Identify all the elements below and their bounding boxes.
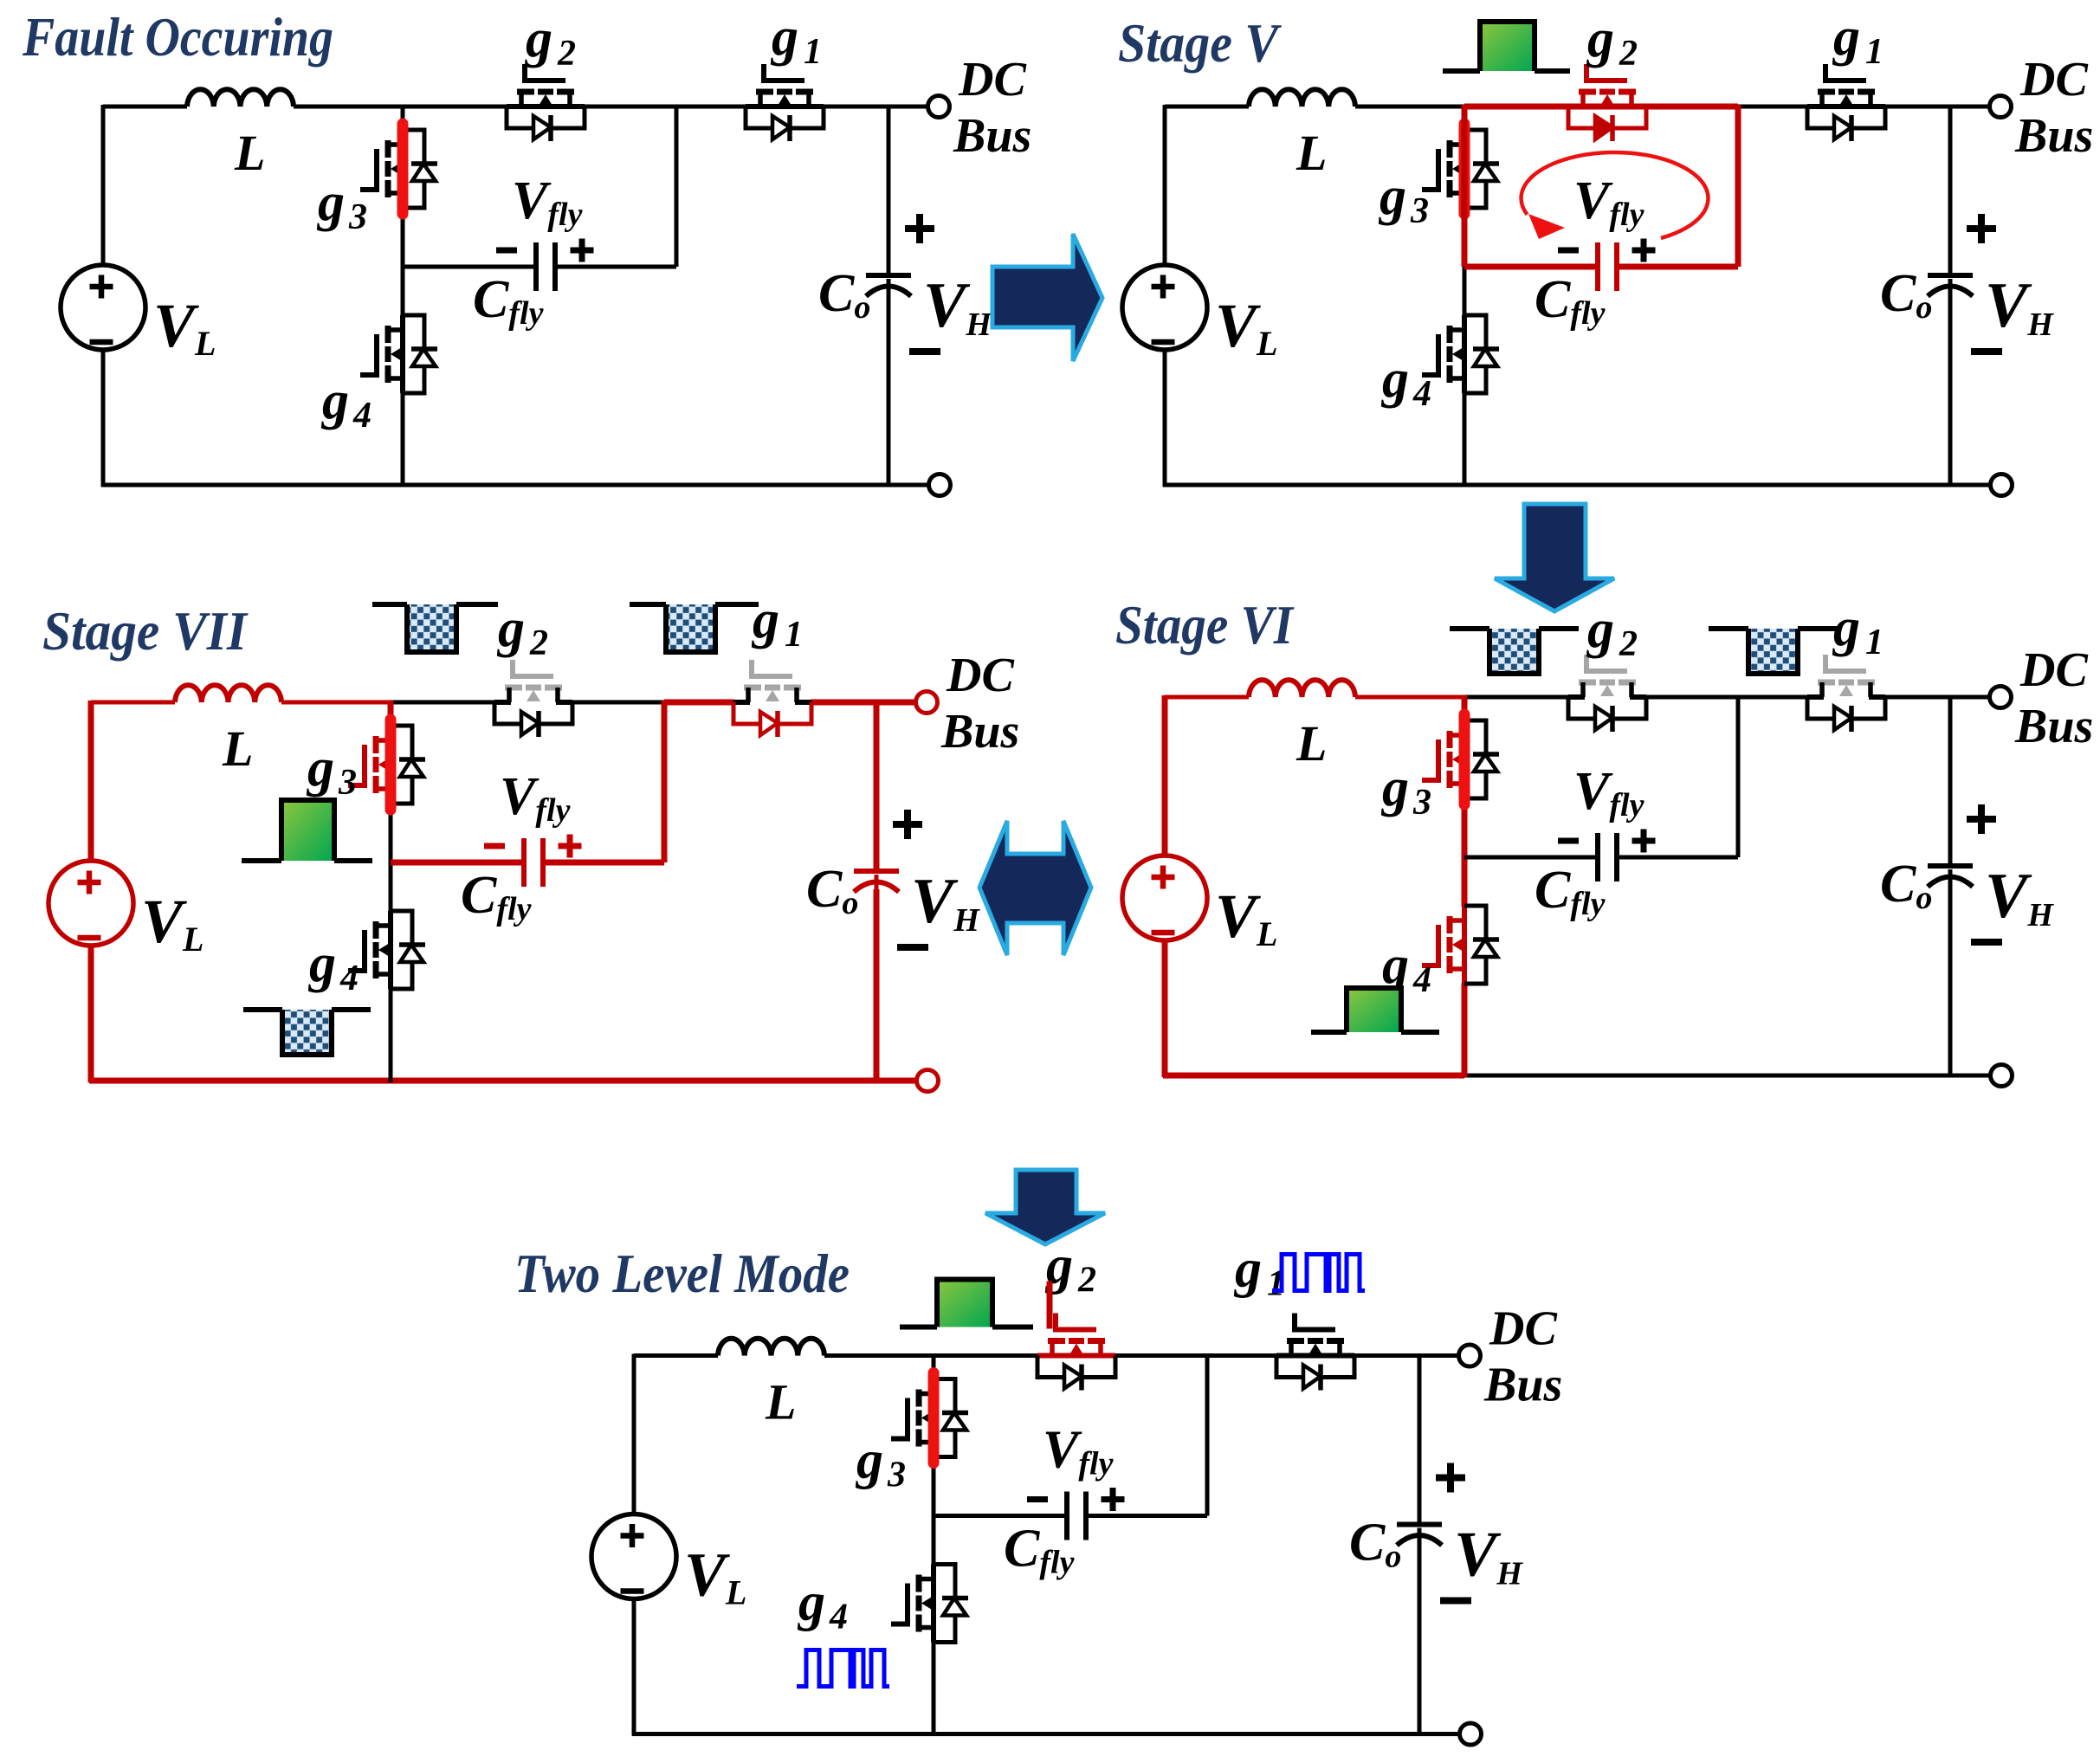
wire Cfly riser (Stage VII)	[662, 701, 668, 862]
wire branch upper (Stage VII)	[388, 701, 394, 727]
gate OFF pulse (hatched notch) g1 Stage VI	[1748, 629, 1798, 674]
label Cfly minus (Two Level Mode)	[1027, 1496, 1048, 1502]
fault short bar on g3 (Stage VII)	[385, 720, 397, 810]
terminal node DC bus + (Stage V)	[1990, 96, 2012, 118]
svg-text:DC: DC	[946, 649, 1014, 702]
label Cfly minus (Stage VI)	[1558, 838, 1579, 844]
transistor Q g1 (Fault Occuring)	[746, 64, 824, 141]
circulating current arrowhead (Stage V)	[1528, 214, 1565, 239]
wire left vertical (Fault Occuring)	[101, 105, 106, 265]
transistor Q g3 (Fault Occuring)	[360, 130, 437, 208]
flow arrow down (to Two Level Mode)	[985, 1170, 1105, 1244]
gate OFF pulse (hatched notch) g2 Stage VI	[1489, 629, 1539, 674]
svg-text:DC: DC	[2019, 53, 2088, 107]
fault short bar on g3 (Two Level Mode)	[928, 1373, 940, 1463]
wire top rail g1-to-terminal (Two Level Mode)	[1354, 1353, 1459, 1358]
transistor Q g4 (Fault Occuring)	[360, 315, 437, 393]
inductor L (Fault Occuring)	[187, 89, 294, 107]
fault short bar on g3 (Stage V)	[1459, 124, 1470, 214]
wire top rail left segment (Two Level Mode)	[634, 1353, 718, 1358]
wire top rail g2-to-node (Two Level Mode)	[1115, 1353, 1207, 1358]
wire left vertical (Stage VII)	[88, 701, 94, 861]
svg-text:Stage VI: Stage VI	[1115, 595, 1295, 655]
gate ON pulse (green) g2 Two Level Mode	[937, 1280, 992, 1327]
wire Co riser (Fault Occuring)	[887, 107, 891, 274]
svg-text:DC: DC	[1489, 1302, 1557, 1356]
label Cfly plus (Stage V)	[1632, 248, 1656, 254]
label Cfly plus (Stage VI)	[1632, 838, 1656, 844]
label VH plus (Stage VII)	[893, 821, 922, 828]
label Cfly plus (Two Level Mode)	[1102, 1496, 1125, 1502]
capacitor Co (Stage V)	[1928, 273, 1973, 278]
transistor Q g3 (Two Level Mode)	[891, 1379, 968, 1457]
transistor Q g4 (Stage VII)	[348, 911, 425, 989]
wire top rail inductor-to-branch (Fault Occuring)	[294, 105, 403, 109]
flow arrow double (Stage VII and Stage VI)	[979, 821, 1091, 955]
capacitor Cfly (Two Level Mode)	[1064, 1492, 1069, 1540]
wire Co riser (Stage VI)	[1948, 697, 1953, 865]
gate ON pulse (green) g4 Stage VI	[1347, 988, 1401, 1032]
wire Cfly riser (Fault Occuring)	[675, 105, 679, 267]
capacitor Co (Stage VI)	[1928, 863, 1973, 869]
wire Cfly riser (Stage VI)	[1736, 695, 1741, 857]
wire Cfly right (Stage VI)	[1617, 856, 1738, 860]
gate ON pulse (green) g2 Stage V	[1480, 22, 1535, 71]
capacitor Cfly (Stage V)	[1595, 242, 1600, 291]
svg-text:Bus: Bus	[2014, 700, 2093, 753]
capacitor Co (Fault Occuring)	[866, 273, 911, 278]
transistor Q g3 (Stage V)	[1422, 130, 1499, 208]
gate OFF pulse (hatched notch) g1 Stage VII	[666, 604, 715, 652]
PWM gate waveform (blue) g4 (Two Level Mode)	[797, 1650, 889, 1687]
transistor Q g3 (Stage VI)	[1422, 720, 1499, 798]
wire top rail node-to-g1 (Stage VII)	[664, 700, 734, 706]
wire branch lower (Fault Occuring)	[401, 392, 405, 487]
wire bottom rail left (Stage VI)	[1163, 1073, 1464, 1079]
wire top rail g2-to-node (Fault Occuring)	[584, 105, 676, 109]
wire top rail g2-to-node (Stage V)	[1645, 104, 1738, 110]
label VH plus (Fault Occuring)	[905, 225, 934, 232]
transistor Q g1 (Stage VII)	[733, 660, 811, 737]
wire Cfly left (Stage VI)	[1464, 856, 1598, 860]
transistor Q g2 (Two Level Mode)	[1037, 1314, 1115, 1391]
svg-text:L: L	[1296, 125, 1327, 181]
inductor L (Stage V)	[1249, 89, 1355, 107]
transistor Q g3 (Stage VII)	[348, 726, 425, 804]
wire branch lower (Stage VI)	[1462, 983, 1468, 1077]
inductor L (Stage VI)	[1249, 680, 1355, 697]
wire left vertical (Stage VI)	[1162, 695, 1168, 856]
wire top rail left segment (Stage VI)	[1165, 695, 1249, 700]
inductor L (Stage VII)	[175, 685, 281, 702]
wire Cfly left (Stage VII)	[391, 860, 524, 866]
terminal node DC bus - (Stage VI)	[1991, 1065, 2013, 1087]
wire Co riser (Stage V)	[1948, 107, 1953, 274]
svg-text:DC: DC	[2019, 643, 2088, 697]
wire bottom rail left (Two Level Mode)	[632, 1732, 934, 1736]
wire Cfly riser (Stage V)	[1735, 105, 1741, 267]
wire top rail branch-to-g2 (Two Level Mode)	[934, 1353, 1038, 1358]
label VH minus (Stage VII)	[897, 944, 928, 951]
svg-text:Two Level Mode: Two Level Mode	[514, 1243, 850, 1304]
capacitor Co (Stage VII)	[854, 869, 899, 874]
svg-text:L: L	[765, 1374, 796, 1430]
transistor Q g1 (Stage V)	[1807, 64, 1885, 141]
wire top rail branch-to-g2 (Fault Occuring)	[403, 105, 507, 109]
voltage source VL (Fault Occuring)	[61, 265, 145, 350]
wire branch upper (Two Level Mode)	[932, 1354, 936, 1380]
wire top rail node-to-g1 (Fault Occuring)	[676, 105, 746, 109]
flow arrow down (Stage V to Stage VI)	[1495, 504, 1614, 611]
wire Cfly right (Stage VII)	[543, 860, 664, 866]
wire top rail node-to-g1 (Stage VI)	[1738, 695, 1808, 700]
wire bottom rail right (Stage VII)	[391, 1078, 916, 1084]
transistor Q g2 (Fault Occuring)	[507, 64, 585, 141]
gate OFF pulse (hatched notch) g2 Stage VII	[407, 604, 456, 652]
fault short bar on g3 (Stage VI)	[1459, 714, 1470, 804]
svg-text:Fault Occuring: Fault Occuring	[22, 7, 333, 68]
wire top rail branch-to-g2 (Stage V)	[1464, 104, 1569, 110]
red commutation loop (Stage V)	[1464, 107, 1738, 267]
PWM gate waveform (blue) g1 (Two Level Mode)	[1272, 1255, 1365, 1291]
capacitor Cfly (Fault Occuring)	[533, 242, 539, 291]
capacitor Cfly (Stage VII)	[521, 838, 527, 887]
terminal node DC bus - (Fault Occuring)	[929, 475, 951, 496]
wire top rail g1-to-terminal (Stage VII)	[811, 700, 916, 706]
transistor Q g4 (Stage V)	[1422, 315, 1499, 393]
label VH plus (Stage VI)	[1967, 816, 1996, 823]
wire left vertical (Stage V)	[1163, 105, 1167, 265]
wire top rail g2-to-node (Stage VI)	[1645, 695, 1738, 700]
label VH minus (Stage V)	[1971, 348, 2002, 355]
terminal node DC bus - (Stage VII)	[917, 1070, 939, 1092]
wire top rail node-to-g1 (Stage V)	[1738, 105, 1808, 109]
svg-text:L: L	[234, 125, 265, 181]
svg-text:Bus: Bus	[953, 109, 1031, 163]
terminal node DC bus + (Stage VII)	[916, 692, 938, 714]
wire bottom rail left (Stage VII)	[89, 1078, 391, 1084]
wire top rail inductor-to-branch (Two Level Mode)	[824, 1353, 934, 1358]
wire Cfly left (Two Level Mode)	[934, 1514, 1067, 1518]
gate ON pulse (green) g3 Stage VII	[281, 800, 334, 861]
terminal node DC bus - (Two Level Mode)	[1460, 1723, 1482, 1745]
wire top rail branch-to-g2 (Stage VII)	[391, 701, 495, 705]
label Cfly plus (Stage VII)	[559, 843, 582, 849]
inductor L (Two Level Mode)	[718, 1339, 824, 1356]
wire top rail branch-to-g2 (Stage VI)	[1464, 695, 1569, 700]
wire top rail left segment (Stage V)	[1165, 105, 1249, 109]
transistor Q g1 (Stage VI)	[1807, 655, 1885, 732]
svg-text:Stage VII: Stage VII	[42, 601, 249, 662]
wire Cfly left (Fault Occuring)	[403, 265, 536, 269]
wire branch lower (Stage V)	[1463, 392, 1467, 487]
wire bottom rail right (Two Level Mode)	[934, 1732, 1459, 1736]
svg-text:Bus: Bus	[1483, 1359, 1562, 1412]
transistor Q g2 (Stage V)	[1568, 64, 1646, 141]
transistor Q g2 (Stage VII)	[494, 660, 572, 737]
svg-text:Bus: Bus	[2014, 109, 2093, 163]
label VH minus (Stage VI)	[1971, 939, 2002, 946]
voltage source VL (Stage V)	[1122, 265, 1207, 350]
transistor Q g4 (Two Level Mode)	[891, 1565, 968, 1643]
wire Co riser (Two Level Mode)	[1418, 1356, 1422, 1524]
wire top rail left segment (Fault Occuring)	[103, 105, 187, 109]
wire branch upper (Stage VI)	[1462, 695, 1468, 721]
label Cfly minus (Stage V)	[1558, 248, 1579, 254]
wire top rail inductor-to-branch (Stage VII)	[281, 701, 391, 705]
voltage source VL (Stage VI)	[1122, 856, 1207, 940]
wire branch lower (Two Level Mode)	[932, 1642, 936, 1736]
wire Cfly riser (Two Level Mode)	[1205, 1354, 1210, 1516]
label Cfly minus (Fault Occuring)	[496, 248, 517, 254]
fault short bar on g3 (Fault Occuring)	[397, 124, 409, 214]
transistor Q g2 (Stage VI)	[1568, 655, 1646, 732]
flow arrow right (Fault to Stage V)	[992, 234, 1102, 361]
wire top rail left segment (Stage VII)	[91, 701, 175, 705]
voltage source VL (Two Level Mode)	[591, 1514, 676, 1599]
wire Cfly left (Stage V)	[1464, 264, 1598, 270]
voltage source VL (Stage VII)	[48, 861, 133, 946]
transistor Q g4 (Stage VI)	[1422, 906, 1499, 984]
wire branch lower (Stage VII)	[389, 988, 393, 1082]
terminal node DC bus - (Stage V)	[1991, 475, 2013, 496]
terminal node DC bus + (Stage VI)	[1990, 687, 2012, 708]
wire top rail inductor-to-branch (Stage VI)	[1355, 695, 1464, 700]
wire top rail g1-to-terminal (Stage V)	[1884, 105, 1990, 109]
wire Cfly right (Two Level Mode)	[1086, 1514, 1207, 1518]
capacitor Co (Two Level Mode)	[1397, 1522, 1442, 1527]
label VH minus (Fault Occuring)	[909, 348, 940, 355]
wire bottom rail right (Stage VI)	[1464, 1074, 1990, 1078]
gate OFF pulse (hatched notch) g4 Stage VII	[282, 1010, 332, 1055]
wire top rail inductor-to-branch (Stage V)	[1355, 105, 1464, 109]
terminal node DC bus + (Fault Occuring)	[928, 96, 950, 118]
svg-text:Stage V: Stage V	[1118, 13, 1283, 74]
wire Cfly right (Stage V)	[1617, 264, 1738, 270]
svg-text:L: L	[1296, 715, 1327, 772]
label VH minus (Two Level Mode)	[1440, 1598, 1471, 1605]
wire top rail g1-to-terminal (Fault Occuring)	[823, 105, 928, 109]
terminal node DC bus + (Two Level Mode)	[1459, 1345, 1481, 1366]
wire top rail g2-to-node (Stage VII)	[572, 701, 664, 705]
wire top rail node-to-g1 (Two Level Mode)	[1207, 1353, 1277, 1358]
svg-text:Bus: Bus	[940, 705, 1019, 759]
wire bottom rail left (Fault Occuring)	[101, 483, 403, 488]
label Cfly minus (Stage VII)	[484, 843, 505, 849]
wire top rail g1-to-terminal (Stage VI)	[1884, 695, 1990, 700]
svg-text:DC: DC	[958, 53, 1026, 107]
wire bottom rail right (Fault Occuring)	[403, 483, 928, 488]
label VH plus (Stage V)	[1967, 225, 1996, 232]
capacitor Cfly (Stage VI)	[1595, 833, 1600, 881]
wire branch upper (Stage V)	[1462, 105, 1468, 131]
wire Cfly right (Fault Occuring)	[555, 265, 676, 269]
label VH plus (Two Level Mode)	[1436, 1475, 1465, 1482]
wire Co riser (Stage VII)	[874, 702, 880, 870]
wire bottom rail left (Stage V)	[1163, 483, 1464, 488]
wire left vertical (Two Level Mode)	[632, 1354, 636, 1514]
svg-text:L: L	[222, 720, 253, 777]
red gate lead extension g2 (Two Level Mode)	[1047, 1282, 1053, 1329]
circulating current ellipse (Stage V)	[1522, 152, 1709, 238]
transistor Q g1 (Two Level Mode)	[1276, 1314, 1354, 1391]
wire branch upper (Fault Occuring)	[401, 105, 405, 131]
wire bottom rail right (Stage V)	[1464, 483, 1990, 488]
label Cfly plus (Fault Occuring)	[571, 248, 594, 254]
